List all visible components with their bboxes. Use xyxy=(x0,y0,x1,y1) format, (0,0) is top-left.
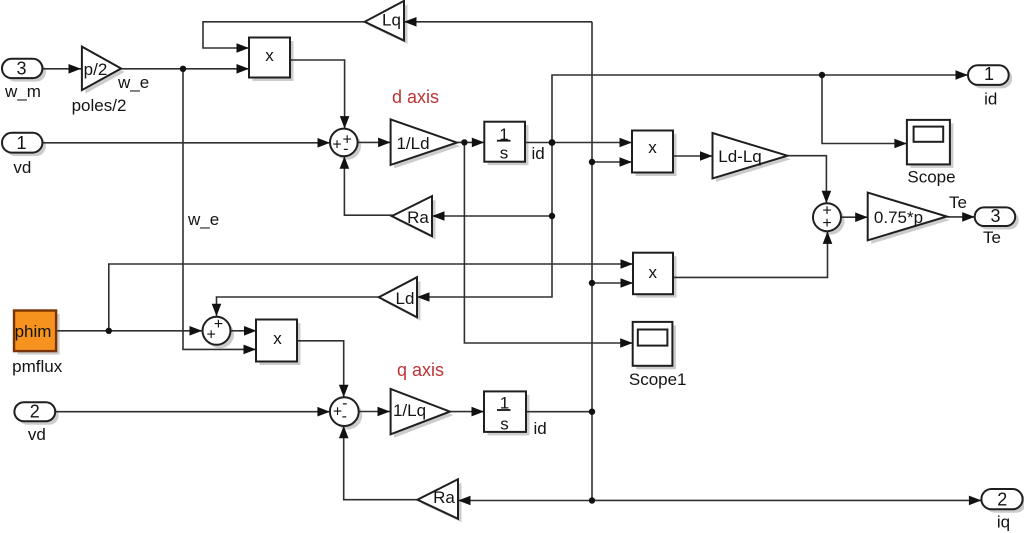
svg-text:-: - xyxy=(343,140,348,157)
svg-text:3: 3 xyxy=(16,58,26,78)
svg-text:1: 1 xyxy=(984,64,994,84)
svg-text:2: 2 xyxy=(997,489,1007,509)
svg-text:Ld: Ld xyxy=(396,289,415,308)
svg-text:vd: vd xyxy=(13,158,31,177)
svg-text:3: 3 xyxy=(990,206,1000,226)
svg-text:x: x xyxy=(649,263,658,282)
svg-text:1/Ld: 1/Ld xyxy=(396,134,429,153)
svg-text:Scope1: Scope1 xyxy=(629,370,687,389)
svg-text:id: id xyxy=(534,419,547,438)
svg-text:vd: vd xyxy=(28,425,46,444)
svg-text:w_e: w_e xyxy=(187,210,219,229)
svg-text:poles/2: poles/2 xyxy=(72,96,127,115)
svg-text:s: s xyxy=(500,144,509,163)
svg-text:pmflux: pmflux xyxy=(12,357,63,376)
svg-text:2: 2 xyxy=(30,402,40,422)
svg-text:w_e: w_e xyxy=(117,73,149,92)
svg-text:+: + xyxy=(332,137,341,154)
svg-text:Te: Te xyxy=(949,193,967,212)
svg-text:Ld-Lq: Ld-Lq xyxy=(718,147,761,166)
svg-text:x: x xyxy=(273,329,282,348)
svg-text:iq: iq xyxy=(997,512,1010,531)
svg-text:id: id xyxy=(532,144,545,163)
svg-text:phim: phim xyxy=(15,322,52,341)
svg-text:-: - xyxy=(342,408,347,425)
svg-text:Scope: Scope xyxy=(907,168,955,187)
svg-text:Lq: Lq xyxy=(382,11,401,30)
svg-text:x: x xyxy=(265,46,274,65)
svg-text:0.75*p: 0.75*p xyxy=(874,208,923,227)
svg-text:w_m: w_m xyxy=(4,82,41,101)
svg-text:d axis: d axis xyxy=(392,87,439,107)
svg-text:Te: Te xyxy=(983,228,1001,247)
svg-text:p/2: p/2 xyxy=(84,60,108,79)
svg-text:x: x xyxy=(648,138,657,157)
svg-text:+: + xyxy=(822,215,831,232)
svg-text:s: s xyxy=(500,415,509,434)
svg-text:1: 1 xyxy=(16,133,26,153)
svg-text:+: + xyxy=(214,316,223,333)
svg-text:q axis: q axis xyxy=(397,360,444,380)
svg-text:Ra: Ra xyxy=(433,488,455,507)
svg-text:Ra: Ra xyxy=(407,208,429,227)
svg-text:1/Lq: 1/Lq xyxy=(393,401,426,420)
svg-text:id: id xyxy=(984,90,997,109)
